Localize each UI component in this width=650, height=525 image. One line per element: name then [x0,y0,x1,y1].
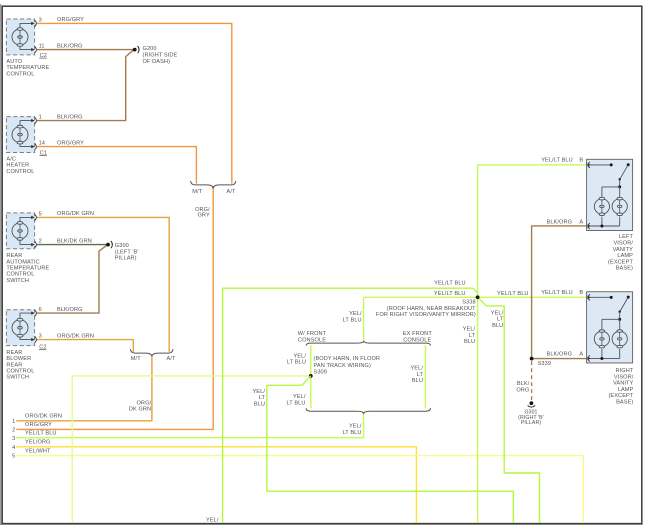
svg-text:A/T: A/T [227,189,236,195]
svg-text:CONTROL: CONTROL [6,272,34,278]
svg-text:BLK/ORG: BLK/ORG [547,220,573,226]
svg-text:YEL/WHT: YEL/WHT [25,448,51,454]
svg-text:ORG/GRY: ORG/GRY [57,17,84,23]
svg-text:YEL/: YEL/ [463,327,476,333]
svg-text:YEL/LT BLU: YEL/LT BLU [541,290,573,296]
svg-text:CONSOLE: CONSOLE [298,337,326,343]
svg-text:TEMPERATURE: TEMPERATURE [6,266,49,272]
svg-text:LT: LT [497,317,504,323]
svg-text:W/ FRONT: W/ FRONT [298,331,327,337]
svg-text:ORG/DK GRN: ORG/DK GRN [57,333,94,339]
svg-text:BLK/: BLK/ [517,381,530,387]
svg-text:(RIGHT SIDE: (RIGHT SIDE [143,53,178,59]
svg-text:YEL/: YEL/ [349,311,362,317]
svg-text:A: A [579,351,583,357]
svg-text:OF DASH): OF DASH) [143,59,171,65]
svg-text:BLK/DK GRN: BLK/DK GRN [57,238,92,244]
svg-text:LT: LT [469,333,476,339]
svg-text:BASE): BASE) [616,400,633,406]
svg-text:GRY: GRY [197,212,209,218]
svg-text:BLK/ORG: BLK/ORG [57,307,83,313]
svg-text:TEMPERATURE: TEMPERATURE [6,65,49,71]
svg-text:BASE): BASE) [616,266,633,272]
svg-text:LEFT: LEFT [619,234,634,240]
svg-text:REAR: REAR [6,253,22,259]
svg-text:PILLAR): PILLAR) [115,256,137,262]
svg-text:LT: LT [259,395,266,401]
svg-text:3: 3 [39,334,42,340]
svg-text:YEL/: YEL/ [491,311,504,317]
svg-text:B: B [579,158,583,164]
svg-text:YEL/LT BLU: YEL/LT BLU [541,158,573,164]
svg-text:BLU: BLU [464,339,475,345]
svg-text:REAR: REAR [6,350,22,356]
svg-text:4: 4 [12,445,15,451]
svg-text:YEL/: YEL/ [293,394,306,400]
svg-text:YEL/LT BLU: YEL/LT BLU [25,430,57,436]
svg-text:RIGHT: RIGHT [615,368,633,374]
svg-text:LT BLU: LT BLU [286,401,305,407]
svg-text:YEL/LT BLU: YEL/LT BLU [434,281,466,287]
svg-text:ORG/GRY: ORG/GRY [25,422,52,428]
svg-text:SWITCH: SWITCH [6,278,29,284]
svg-text:EX FRONT: EX FRONT [403,331,433,337]
svg-text:PILLAR): PILLAR) [521,420,541,426]
svg-text:VANITY: VANITY [613,381,634,387]
svg-text:A/C: A/C [6,156,16,162]
svg-text:YEL/ORG: YEL/ORG [25,440,51,446]
svg-text:BLU: BLU [412,378,423,384]
svg-text:(EXCEPT: (EXCEPT [608,393,633,399]
svg-text:YEL/LT BLU: YEL/LT BLU [434,291,466,297]
svg-text:ORG/DK GRN: ORG/DK GRN [57,211,94,217]
svg-text:A/T: A/T [167,356,176,362]
svg-text:M/T: M/T [131,356,141,362]
svg-text:S339: S339 [538,361,551,367]
svg-text:14: 14 [39,141,45,147]
svg-text:LT BLU: LT BLU [343,317,362,323]
svg-text:PAN TRACK WIRING): PAN TRACK WIRING) [314,363,371,369]
svg-text:REAR: REAR [6,362,22,368]
svg-text:G200: G200 [143,46,157,52]
svg-text:LT: LT [417,372,424,378]
svg-text:CONSOLE: CONSOLE [403,337,431,343]
svg-text:11: 11 [39,44,45,50]
svg-text:A: A [579,220,583,226]
svg-text:2: 2 [39,239,42,245]
svg-text:LT BLU: LT BLU [342,430,361,436]
svg-text:3: 3 [39,17,42,23]
svg-text:S309: S309 [314,370,327,376]
svg-text:YEL/LT BLU: YEL/LT BLU [497,291,529,297]
svg-text:2: 2 [12,428,15,434]
svg-text:G300: G300 [115,243,129,249]
svg-text:6: 6 [39,307,42,313]
svg-text:S338: S338 [462,300,475,306]
svg-text:1: 1 [39,115,42,121]
svg-text:CONTROL: CONTROL [6,369,34,375]
svg-text:AUTOMATIC: AUTOMATIC [6,259,39,265]
svg-text:B: B [579,290,583,296]
svg-text:LAMP: LAMP [617,253,633,259]
svg-text:CONTROL: CONTROL [6,169,34,175]
svg-text:(BODY HARN, IN FLOOR: (BODY HARN, IN FLOOR [314,356,381,362]
svg-text:YEL/: YEL/ [410,366,423,372]
svg-text:HEATER: HEATER [6,163,29,169]
svg-text:FOR RIGHT VISOR/VANITY MIRROR): FOR RIGHT VISOR/VANITY MIRROR) [376,312,476,318]
svg-text:CONTROL: CONTROL [6,71,34,77]
svg-text:ORG/DK GRN: ORG/DK GRN [25,414,62,420]
svg-text:VISOR/: VISOR/ [613,241,633,247]
svg-text:BLU: BLU [492,323,503,329]
svg-text:LAMP: LAMP [618,387,634,393]
svg-text:LT BLU: LT BLU [287,359,306,365]
svg-text:ORG/GRY: ORG/GRY [57,140,84,146]
svg-text:YEL/: YEL/ [349,424,362,430]
svg-text:BLK/ORG: BLK/ORG [57,114,83,120]
svg-text:(EXCEPT: (EXCEPT [608,259,633,265]
svg-text:5: 5 [39,211,42,217]
svg-text:ORG: ORG [516,388,529,394]
svg-text:VANITY: VANITY [613,247,634,253]
svg-text:VISOR/: VISOR/ [614,374,634,380]
svg-text:BLOWER: BLOWER [6,356,31,362]
svg-text:AUTO: AUTO [6,59,22,65]
svg-text:SWITCH: SWITCH [6,375,29,381]
svg-text:3: 3 [12,436,15,442]
svg-text:YEL/: YEL/ [206,517,219,523]
svg-text:5: 5 [12,454,15,460]
svg-text:1: 1 [12,419,15,425]
svg-text:BLK/ORG: BLK/ORG [547,351,573,357]
svg-text:BLK/ORG: BLK/ORG [57,43,83,49]
svg-text:BLU: BLU [254,401,265,407]
svg-text:(LEFT 'B': (LEFT 'B' [115,249,139,255]
svg-text:M/T: M/T [192,189,202,195]
svg-text:DK GRN: DK GRN [129,406,151,412]
